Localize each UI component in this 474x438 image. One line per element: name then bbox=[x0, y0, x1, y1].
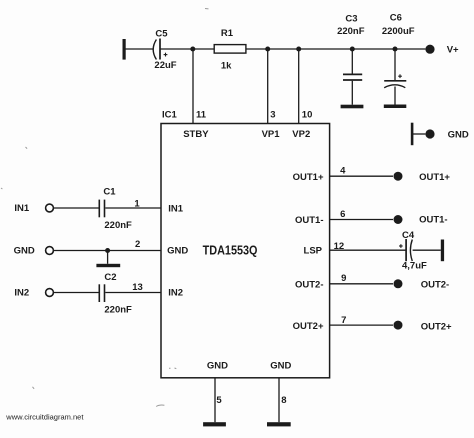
svg-text:10: 10 bbox=[302, 110, 313, 121]
svg-text:OUT1-: OUT1- bbox=[419, 215, 448, 226]
svg-text:11: 11 bbox=[196, 110, 207, 121]
svg-text:6: 6 bbox=[340, 209, 345, 220]
svg-text:1: 1 bbox=[134, 199, 140, 210]
svg-text:STBY: STBY bbox=[183, 129, 209, 140]
svg-text:220nF: 220nF bbox=[104, 305, 132, 316]
svg-text:IN1: IN1 bbox=[168, 204, 184, 215]
svg-text:3: 3 bbox=[270, 110, 275, 121]
svg-text:OUT2+: OUT2+ bbox=[293, 321, 324, 332]
svg-text:IN2: IN2 bbox=[168, 288, 183, 299]
svg-text:C1: C1 bbox=[103, 187, 116, 198]
svg-text:VP2: VP2 bbox=[292, 129, 310, 140]
svg-text:OUT1+: OUT1+ bbox=[293, 172, 324, 183]
svg-text:22uF: 22uF bbox=[154, 60, 176, 71]
svg-text:OUT1-: OUT1- bbox=[295, 215, 324, 226]
svg-text:C2: C2 bbox=[104, 272, 116, 283]
svg-text:13: 13 bbox=[132, 282, 143, 293]
svg-text:R1: R1 bbox=[221, 28, 234, 39]
svg-text:2: 2 bbox=[135, 239, 140, 250]
svg-text:IN2: IN2 bbox=[14, 288, 29, 299]
svg-text:2200uF: 2200uF bbox=[382, 26, 415, 37]
svg-text:C4: C4 bbox=[402, 230, 415, 241]
svg-text:GND: GND bbox=[270, 360, 291, 371]
svg-text:V+: V+ bbox=[447, 44, 459, 55]
svg-text:220nF: 220nF bbox=[337, 26, 365, 37]
svg-text:LSP: LSP bbox=[304, 246, 323, 257]
svg-text:7: 7 bbox=[341, 315, 346, 326]
svg-text:IN1: IN1 bbox=[14, 203, 30, 214]
svg-text:OUT2-: OUT2- bbox=[295, 280, 324, 291]
svg-text:5: 5 bbox=[216, 395, 222, 406]
svg-text:GND: GND bbox=[207, 360, 228, 371]
svg-text:OUT2+: OUT2+ bbox=[421, 321, 452, 332]
svg-text:4: 4 bbox=[340, 166, 346, 177]
svg-text:1k: 1k bbox=[221, 61, 232, 72]
svg-text:GND: GND bbox=[448, 130, 469, 141]
svg-text:GND: GND bbox=[14, 246, 35, 257]
svg-text:www.circuitdiagram.net: www.circuitdiagram.net bbox=[5, 413, 84, 422]
svg-text:8: 8 bbox=[281, 395, 286, 406]
svg-text:OUT2-: OUT2- bbox=[421, 280, 450, 291]
svg-text:12: 12 bbox=[334, 241, 345, 252]
svg-text:C5: C5 bbox=[155, 29, 168, 40]
svg-text:220nF: 220nF bbox=[104, 220, 132, 231]
svg-text:C6: C6 bbox=[390, 13, 402, 24]
svg-text:C3: C3 bbox=[345, 13, 357, 24]
svg-text:4,7uF: 4,7uF bbox=[402, 261, 427, 272]
svg-text:IC1: IC1 bbox=[162, 110, 178, 121]
svg-text:TDA1553Q: TDA1553Q bbox=[203, 243, 258, 258]
svg-text:GND: GND bbox=[167, 246, 188, 257]
svg-text:OUT1+: OUT1+ bbox=[419, 172, 450, 183]
svg-text:VP1: VP1 bbox=[262, 129, 281, 140]
svg-text:9: 9 bbox=[341, 273, 346, 284]
